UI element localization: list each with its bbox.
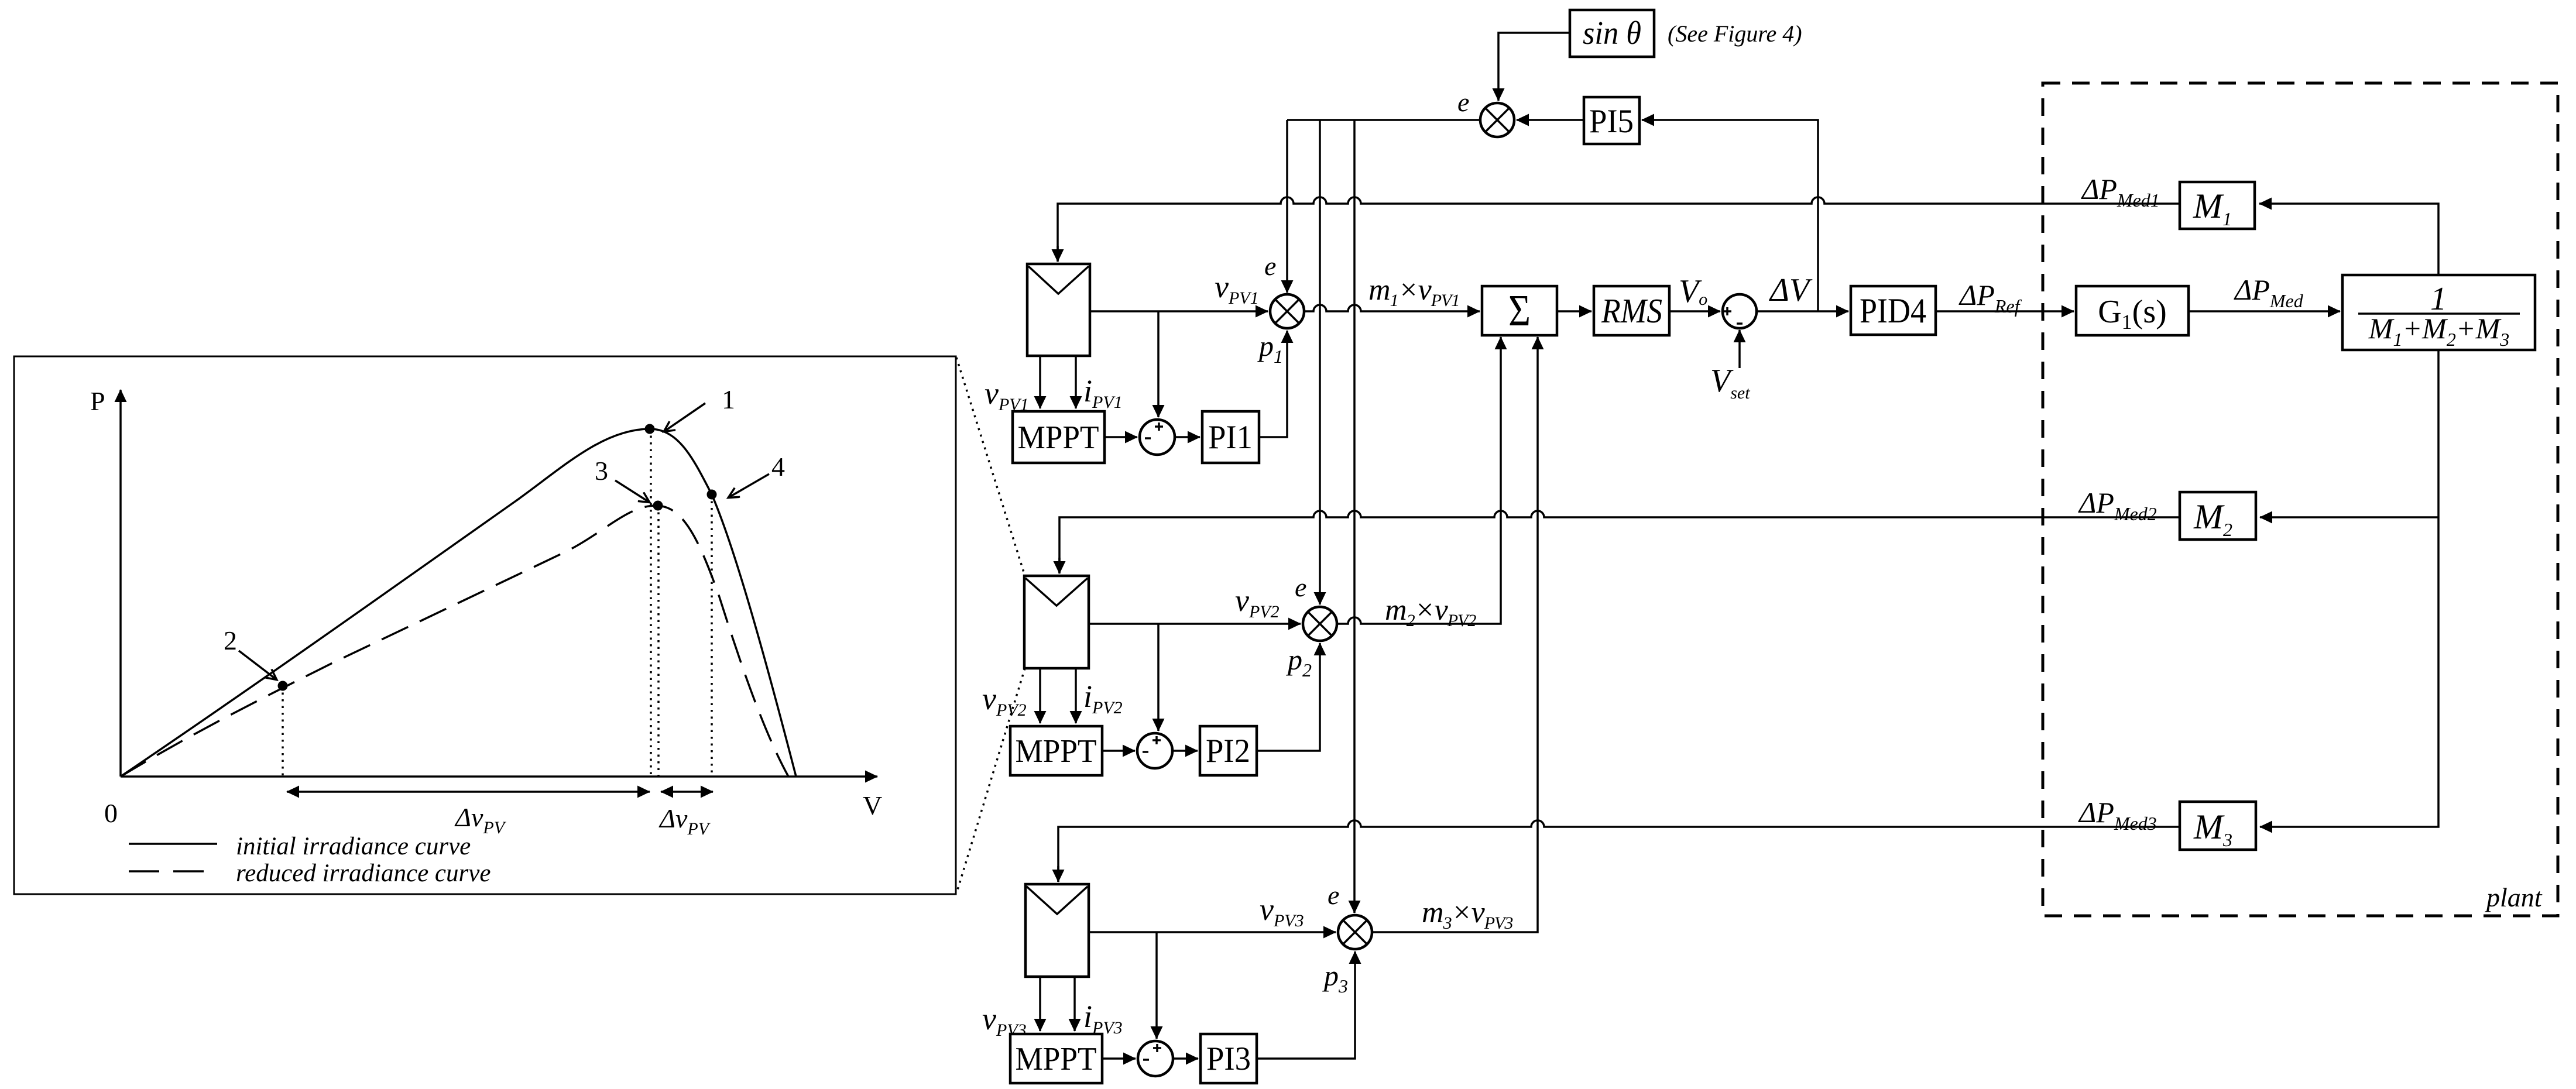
Sigma box: [1482, 286, 1557, 335]
svg-text:reduced irradiance curve: reduced irradiance curve: [236, 860, 490, 887]
dotted drop line from point 4: [711, 494, 713, 777]
svg-text:M1+M2+M3: M1+M2+M3: [2368, 312, 2509, 350]
wire feedback to PI5: [1642, 120, 1818, 311]
summing junction 2: [1137, 733, 1172, 768]
dotted zoom connector bottom: [956, 668, 1025, 894]
double arrow for small delta-v: [661, 791, 713, 793]
wire PI5 to e-multiplier: [1517, 119, 1584, 121]
wire e down to multiplier 3: [1353, 120, 1356, 913]
G1(s) box: [2076, 286, 2189, 335]
point 4 dot: [707, 490, 717, 500]
multiplier e (top): [1480, 103, 1514, 137]
wire v_PV3 out of PV3 to multiplier 3: [1089, 931, 1336, 933]
MPPT 1 box: [1013, 411, 1105, 463]
wire PV2 to MPPT v line: [1039, 668, 1041, 723]
point 3 dot: [653, 501, 663, 511]
M3 box: [2180, 802, 2256, 850]
reduced irradiance curve (dashed): [121, 506, 788, 777]
summing junction 1: [1140, 420, 1175, 455]
svg-text:PI2: PI2: [1206, 733, 1250, 769]
svg-text:MPPT: MPPT: [1016, 733, 1097, 769]
legend solid sample: [129, 843, 217, 845]
svg-text:4: 4: [771, 452, 785, 482]
svg-text:e: e: [1328, 880, 1339, 910]
wire e distribution bus: [1287, 119, 1480, 121]
wire PI3 up to multiplier 3: [1257, 951, 1355, 1059]
MPPT 2 box: [1010, 726, 1102, 775]
dotted drop line from point 2: [282, 686, 284, 777]
P axis: [119, 390, 122, 777]
wire MPPT1 to sum1: [1105, 436, 1137, 438]
dotted drop line from point 3: [657, 506, 660, 777]
wire m2 x v_PV2 up to Sigma (with hop): [1337, 337, 1501, 624]
svg-text:MPPT: MPPT: [1016, 1041, 1097, 1077]
wire divider up to M1: [2259, 204, 2438, 275]
svg-text:MPPT: MPPT: [1018, 420, 1099, 456]
svg-text:1: 1: [722, 384, 735, 414]
wire v_PV1 out of PV1 to multiplier 1: [1090, 310, 1268, 312]
RMS box: [1594, 286, 1669, 335]
wire PV3 to MPPT v line: [1039, 977, 1041, 1031]
initial irradiance curve (solid): [121, 429, 796, 777]
svg-text:e: e: [1295, 572, 1306, 602]
PI1 box: [1202, 411, 1259, 463]
svg-text:3: 3: [595, 456, 608, 486]
wire divider down to M2 and M3: [2260, 350, 2438, 827]
svg-text:P: P: [90, 386, 105, 416]
wire v_PV2 out of PV2 to multiplier 2: [1089, 623, 1301, 625]
panel frame box: [14, 356, 956, 894]
svg-text:PI5: PI5: [1589, 103, 1634, 140]
PV panel 1: [1027, 264, 1090, 356]
M1 box: [2180, 182, 2255, 229]
wire PI1 up to multiplier 1: [1259, 331, 1287, 437]
double arrow for large delta-v: [287, 791, 650, 793]
wire branch to M2: [2260, 516, 2438, 518]
PV panel 2: [1024, 576, 1089, 668]
legend dashed sample: [129, 870, 217, 872]
wire RMS to V summing junction: [1669, 310, 1720, 312]
wire PV1 to MPPT i line: [1075, 356, 1077, 408]
wire feedback dP_Med3 into PV3 (with hops): [1058, 820, 2180, 882]
wire m3 x v_PV3 up to Sigma: [1372, 337, 1538, 932]
PI5 box: [1584, 97, 1639, 144]
wire sum2 to PI2: [1172, 750, 1198, 752]
wire branch v_PV1 down to sum 1: [1157, 311, 1160, 417]
dotted drop line from point 1: [650, 429, 652, 777]
svg-text:plant: plant: [2485, 882, 2543, 912]
wire sum to PID4: [1757, 310, 1848, 312]
multiplier 2: [1303, 607, 1337, 641]
wire PV3 to MPPT i line: [1073, 977, 1076, 1031]
dotted zoom connector top: [956, 358, 1025, 576]
svg-text:initial irradiance curve: initial irradiance curve: [236, 833, 471, 860]
PI2 box: [1200, 726, 1257, 775]
wire sum3 to PI3: [1173, 1057, 1198, 1060]
wire PV2 to MPPT i line: [1075, 668, 1077, 723]
multiplier 3: [1338, 915, 1372, 949]
wire feedback dP_Med2 into PV2 (with hops): [1059, 511, 2180, 573]
svg-text:e: e: [1457, 87, 1469, 117]
svg-text:PI3: PI3: [1206, 1040, 1251, 1077]
svg-text:Σ: Σ: [1508, 286, 1531, 335]
PI3 box: [1200, 1034, 1257, 1083]
wire e down to multiplier 1: [1286, 120, 1288, 293]
divider block 1/(M1+M2+M3): [2342, 275, 2535, 350]
svg-text:2: 2: [224, 626, 237, 655]
wire G1 to divider: [2189, 310, 2340, 312]
sin theta box: [1570, 10, 1654, 57]
svg-text:PI1: PI1: [1208, 419, 1253, 456]
MPPT 3 box: [1010, 1034, 1102, 1083]
svg-text:ΔV: ΔV: [1769, 272, 1813, 308]
wire V_set into summing junction: [1738, 330, 1741, 368]
svg-text:e: e: [1264, 251, 1276, 281]
svg-text:V: V: [863, 791, 882, 820]
point 1 dot: [645, 424, 655, 434]
point 2 dot: [278, 681, 288, 691]
wire Sigma to RMS: [1557, 310, 1591, 312]
wire m1 x v_PV1 to Sigma (with hops): [1304, 305, 1480, 311]
wire branch v_PV3 down to sum 3: [1155, 932, 1158, 1039]
plant dashed box: [2043, 83, 2558, 916]
wire MPPT3 to sum3: [1102, 1057, 1136, 1060]
svg-text:sin θ: sin θ: [1583, 15, 1641, 51]
wire feedback dP_Med1 into PV1 (with hops): [1058, 197, 2180, 262]
svg-text:G1(s): G1(s): [2098, 294, 2167, 334]
wire sum1 to PI1: [1175, 436, 1200, 438]
PV panel 3: [1025, 884, 1089, 977]
M2 box: [2180, 492, 2256, 540]
svg-text:(See Figure 4): (See Figure 4): [1668, 20, 1802, 47]
wire PID4 to G1: [1936, 310, 2074, 312]
wire PI2 up to multiplier 2: [1257, 643, 1320, 751]
wire branch v_PV2 down to sum 2: [1157, 624, 1160, 731]
wire sin theta to e-multiplier: [1498, 33, 1570, 101]
PID4 box: [1851, 286, 1936, 335]
wire MPPT2 to sum2: [1102, 750, 1135, 752]
svg-text:0: 0: [104, 798, 118, 828]
V axis: [121, 775, 877, 778]
wire e down to multiplier 2: [1319, 120, 1321, 604]
svg-text:PID4: PID4: [1860, 291, 1926, 330]
summing junction 3: [1138, 1041, 1173, 1076]
svg-text:RMS: RMS: [1601, 291, 1662, 330]
wire PV1 to MPPT v line: [1039, 356, 1041, 408]
multiplier 1: [1270, 294, 1304, 328]
V summing junction: [1723, 294, 1757, 328]
